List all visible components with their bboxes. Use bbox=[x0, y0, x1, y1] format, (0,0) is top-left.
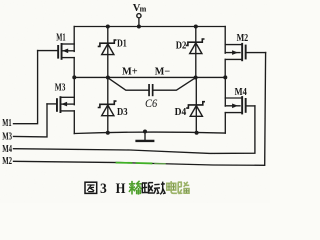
svg-text:M+: M+ bbox=[122, 66, 138, 77]
transistor M2 bbox=[225, 27, 265, 78]
svg-text:D2: D2 bbox=[176, 40, 187, 51]
scan noise texture bbox=[0, 0, 270, 203]
svg-text:D1: D1 bbox=[117, 38, 127, 49]
watermark green dash 3 bbox=[155, 163, 165, 165]
wire: bottom ground rail bbox=[74, 132, 225, 133]
M- label bbox=[155, 66, 170, 77]
caption char LU (circuit, light green) bbox=[178, 182, 189, 194]
svg-text:M1: M1 bbox=[56, 32, 65, 43]
transistor M4 bbox=[225, 77, 255, 133]
svg-text:M2: M2 bbox=[237, 33, 249, 44]
diode D1 (zener) bbox=[99, 27, 116, 78]
ground bbox=[137, 132, 154, 141]
node D4 bottom junction bbox=[195, 131, 199, 135]
caption char DIAN (elec, light green) bbox=[167, 181, 177, 193]
wire: M2 gate feed bbox=[14, 53, 266, 166]
M+ label bbox=[122, 66, 138, 77]
wire: middle rail (motor nodes) bbox=[74, 76, 225, 78]
svg-text:D4: D4 bbox=[175, 107, 187, 118]
diode D3 (zener) bbox=[99, 77, 116, 132]
wire: M3 gate feed bbox=[14, 104, 48, 137]
caption char TU (figure) bbox=[85, 182, 97, 193]
transistor M1 bbox=[38, 27, 75, 78]
wire: M+ node to C6 left plate bbox=[108, 78, 148, 90]
svg-text:M2: M2 bbox=[2, 156, 12, 167]
node D3 bottom junction bbox=[106, 131, 110, 135]
watermark green dash 2 bbox=[137, 162, 152, 164]
caption char QIAO (bridge, green) bbox=[129, 181, 142, 195]
capacitor C6 bbox=[148, 84, 153, 96]
wire: M1 gate feed bbox=[14, 51, 38, 124]
svg-text:M4: M4 bbox=[235, 87, 247, 98]
node D1/C6 junction bbox=[106, 76, 110, 80]
caption char QU (drive 1) bbox=[142, 183, 153, 193]
transistor M3 bbox=[47, 77, 74, 133]
node Vm junction bbox=[137, 25, 141, 29]
Vm supply terminal bbox=[137, 14, 141, 27]
node M- junction (M2/M4) bbox=[223, 75, 227, 79]
figure caption bbox=[85, 181, 189, 197]
svg-text:m: m bbox=[140, 4, 147, 13]
node D2 top junction bbox=[194, 25, 198, 29]
svg-text:M−: M− bbox=[155, 66, 170, 77]
svg-text:D3: D3 bbox=[117, 107, 128, 118]
svg-text:3: 3 bbox=[100, 181, 107, 197]
node D1 top junction bbox=[106, 25, 110, 29]
svg-text:M3: M3 bbox=[55, 82, 66, 93]
node D2/C6 junction bbox=[194, 76, 198, 80]
diode D4 (zener) bbox=[187, 77, 204, 133]
node M+ junction (M1/M3) bbox=[72, 75, 76, 79]
svg-text:M1: M1 bbox=[2, 118, 11, 129]
wire: top supply rail bbox=[74, 26, 225, 28]
wire: M4 gate feed bbox=[14, 106, 255, 153]
watermark green dash 1 bbox=[117, 162, 132, 164]
caption char DONG (drive 2) bbox=[154, 182, 166, 195]
node ground tap junction bbox=[143, 130, 147, 134]
Vm label bbox=[133, 3, 147, 14]
svg-text:H: H bbox=[116, 181, 126, 197]
svg-text:C6: C6 bbox=[145, 96, 157, 110]
wire: C6 right plate to M- node bbox=[154, 78, 196, 90]
svg-text:M4: M4 bbox=[2, 144, 12, 155]
diode D2 (zener) bbox=[187, 27, 204, 78]
svg-text:M3: M3 bbox=[2, 131, 12, 142]
